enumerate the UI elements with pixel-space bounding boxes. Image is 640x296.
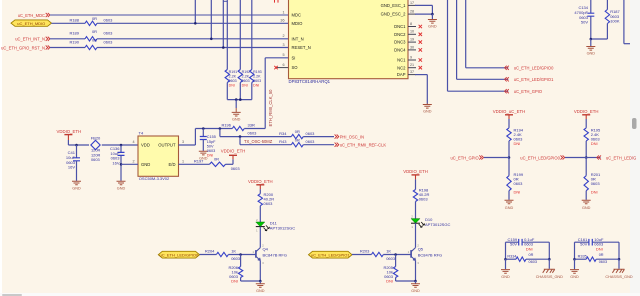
svg-text:uC_ETH_MDIO: uC_ETH_MDIO [17, 21, 45, 26]
svg-text:DNI: DNI [526, 246, 533, 251]
svg-text:0603: 0603 [386, 256, 396, 261]
svg-text:0603: 0603 [104, 31, 114, 36]
svg-text:MDC: MDC [292, 13, 302, 18]
svg-text:R197: R197 [194, 158, 204, 163]
svg-text:GND: GND [428, 25, 437, 29]
svg-text:16V: 16V [112, 160, 119, 165]
svg-text:1K: 1K [386, 249, 391, 254]
svg-text:0R: 0R [529, 253, 534, 257]
svg-text:OSC50M-3.3V02: OSC50M-3.3V02 [139, 176, 170, 181]
svg-text:GND: GND [232, 118, 241, 122]
svg-text:0603: 0603 [242, 79, 250, 83]
svg-text:0603: 0603 [229, 79, 237, 83]
svg-text:DNI: DNI [514, 141, 521, 146]
svg-text:DNI: DNI [386, 278, 393, 283]
svg-text:uC_ETH_LED/GPIO1: uC_ETH_LED/GPIO1 [514, 77, 554, 82]
svg-text:uC_ETH_GPIO: uC_ETH_GPIO [450, 155, 478, 160]
svg-text:16V: 16V [68, 165, 75, 170]
svg-text:3: 3 [282, 43, 284, 47]
svg-text:21: 21 [410, 63, 414, 67]
svg-text:PHI_OSC_IN: PHI_OSC_IN [340, 134, 364, 139]
svg-text:DNI: DNI [231, 278, 238, 283]
svg-text:VDDIO_ETH: VDDIO_ETH [403, 169, 428, 174]
svg-text:CHASSIS_GND: CHASSIS_GND [536, 275, 563, 279]
svg-text:ETH_RMII_CLK_50: ETH_RMII_CLK_50 [268, 89, 273, 127]
svg-text:DNC3: DNC3 [394, 40, 406, 45]
svg-text:DNC4: DNC4 [394, 48, 406, 53]
svg-text:RESET_N: RESET_N [292, 45, 311, 50]
svg-text:50V: 50V [207, 144, 214, 148]
svg-text:uC_ETH_INT_N: uC_ETH_INT_N [15, 37, 45, 42]
svg-text:10: 10 [410, 30, 414, 34]
svg-text:8: 8 [410, 22, 412, 26]
svg-text:R196: R196 [221, 123, 231, 128]
svg-text:GND_ESC_2: GND_ESC_2 [381, 12, 407, 17]
svg-text:0603: 0603 [529, 260, 537, 264]
svg-text:0R: 0R [92, 16, 97, 21]
svg-text:SI: SI [292, 55, 296, 60]
svg-text:C155: C155 [207, 135, 216, 139]
svg-text:SO: SO [292, 65, 299, 70]
svg-text:CHASSIS_GND: CHASSIS_GND [605, 275, 632, 279]
svg-text:2: 2 [282, 34, 284, 38]
svg-text:R192: R192 [242, 70, 251, 74]
svg-text:GND: GND [505, 206, 514, 210]
svg-text:DNI: DNI [229, 84, 235, 88]
svg-text:VDDIO_ETH: VDDIO_ETH [574, 109, 599, 114]
svg-text:9: 9 [410, 55, 412, 59]
svg-text:R193: R193 [253, 70, 262, 74]
svg-text:50V: 50V [580, 242, 587, 247]
svg-text:NC2: NC2 [397, 65, 406, 70]
svg-text:R203: R203 [360, 248, 370, 253]
svg-text:DAP: DAP [397, 72, 406, 77]
svg-text:0603: 0603 [599, 260, 607, 264]
svg-text:0603: 0603 [248, 130, 258, 135]
svg-text:FB20: FB20 [91, 136, 101, 141]
svg-text:R43: R43 [279, 139, 287, 144]
svg-text:1K: 1K [231, 249, 236, 254]
svg-text:uC_ETH_GPIO_RST_N: uC_ETH_GPIO_RST_N [1, 45, 45, 50]
svg-text:R188: R188 [69, 18, 79, 23]
svg-text:uC_ETH_LED/GPIO0: uC_ETH_LED/GPIO0 [160, 252, 199, 257]
svg-text:50V: 50V [581, 20, 588, 25]
svg-text:17: 17 [410, 1, 414, 5]
svg-text:GND: GND [582, 206, 591, 210]
svg-text:37: 37 [410, 70, 414, 74]
svg-text:DNC1: DNC1 [394, 24, 406, 29]
svg-text:0R: 0R [599, 253, 604, 257]
svg-text:BC847B RFG: BC847B RFG [418, 253, 442, 258]
svg-text:0603: 0603 [306, 131, 316, 136]
svg-text:36: 36 [280, 19, 284, 23]
svg-text:OUTPUT: OUTPUT [158, 143, 176, 148]
svg-text:R334: R334 [507, 255, 516, 259]
svg-text:100K: 100K [610, 19, 620, 24]
svg-text:0603: 0603 [514, 181, 524, 186]
svg-text:0603: 0603 [104, 39, 114, 44]
svg-text:uC_ETH_LED/GPIO1: uC_ETH_LED/GPIO1 [311, 252, 350, 257]
svg-text:GND: GND [570, 275, 579, 279]
svg-text:uC_ETH_LED/GPIO0: uC_ETH_LED/GPIO0 [520, 155, 560, 160]
svg-text:28: 28 [410, 10, 414, 14]
svg-text:GND: GND [587, 52, 596, 56]
svg-text:APT3012SGC: APT3012SGC [270, 225, 295, 230]
svg-text:GND: GND [501, 275, 510, 279]
svg-text:MDIO: MDIO [292, 21, 304, 26]
svg-text:50V: 50V [510, 242, 517, 247]
svg-text:DNI: DNI [591, 189, 598, 194]
svg-text:19: 19 [410, 38, 414, 42]
svg-text:0R: 0R [295, 137, 300, 142]
svg-text:GND: GND [423, 110, 432, 114]
svg-text:APT3012SGC: APT3012SGC [425, 222, 450, 227]
svg-text:DNI: DNI [596, 246, 603, 251]
svg-text:NC1: NC1 [397, 58, 406, 63]
svg-text:2.2K: 2.2K [253, 75, 261, 79]
svg-text:30: 30 [410, 45, 414, 49]
svg-text:DNI: DNI [514, 189, 521, 194]
svg-text:5: 5 [282, 53, 284, 57]
svg-text:GND: GND [411, 289, 420, 293]
svg-text:R204: R204 [205, 248, 215, 253]
svg-text:BC847B RFG: BC847B RFG [263, 253, 287, 258]
svg-text:0603: 0603 [264, 201, 274, 206]
svg-text:15pF: 15pF [207, 140, 216, 144]
svg-text:0R: 0R [92, 38, 97, 43]
svg-text:1: 1 [182, 160, 184, 164]
svg-text:2.2K: 2.2K [229, 75, 237, 79]
svg-text:0603: 0603 [231, 166, 241, 171]
svg-text:0603: 0603 [104, 18, 114, 23]
svg-text:33R: 33R [248, 123, 255, 128]
svg-text:R190: R190 [69, 39, 79, 44]
svg-text:R335: R335 [578, 255, 587, 259]
svg-text:VDD: VDD [141, 143, 150, 148]
svg-text:0R: 0R [214, 157, 219, 162]
svg-text:VDDIO_uC_ETH: VDDIO_uC_ETH [493, 109, 525, 114]
svg-text:3: 3 [182, 140, 184, 144]
svg-text:GND: GND [117, 186, 126, 190]
svg-text:0603: 0603 [419, 197, 429, 202]
svg-text:INT_N: INT_N [292, 36, 304, 41]
svg-text:0603: 0603 [253, 79, 261, 83]
svg-text:1: 1 [282, 10, 284, 14]
svg-text:uC_ETH_LED/G: uC_ETH_LED/G [606, 155, 636, 160]
svg-text:GND_ESC_1: GND_ESC_1 [381, 3, 407, 8]
svg-text:0603: 0603 [591, 181, 601, 186]
svg-text:DP83TC814RHARQ1: DP83TC814RHARQ1 [289, 79, 331, 84]
svg-text:TX_OSC-50MZ: TX_OSC-50MZ [244, 139, 273, 144]
svg-text:GND: GND [72, 186, 81, 190]
svg-text:0R: 0R [92, 29, 97, 34]
svg-text:E/D: E/D [169, 162, 176, 167]
svg-text:2: 2 [132, 160, 134, 164]
svg-text:R34: R34 [279, 131, 287, 136]
svg-text:T4: T4 [139, 130, 144, 135]
svg-text:0603: 0603 [306, 139, 316, 144]
svg-text:0603: 0603 [91, 157, 100, 162]
svg-text:uC_ETH_MDC: uC_ETH_MDC [18, 13, 45, 18]
svg-text:0603: 0603 [207, 149, 215, 153]
svg-text:DNI: DNI [591, 141, 598, 146]
svg-text:DNI: DNI [253, 84, 259, 88]
svg-text:R189: R189 [69, 31, 79, 36]
svg-text:0R: 0R [295, 129, 300, 134]
svg-text:2.2K: 2.2K [242, 75, 250, 79]
svg-text:uC_ETH_RMII_REF-CLK: uC_ETH_RMII_REF-CLK [340, 143, 387, 148]
svg-text:DNI: DNI [242, 84, 248, 88]
svg-text:0603: 0603 [231, 256, 241, 261]
svg-text:VDDIO_ETH: VDDIO_ETH [57, 129, 82, 134]
svg-text:6: 6 [282, 63, 284, 67]
svg-text:4: 4 [132, 140, 134, 144]
svg-text:VDDIO_ETH: VDDIO_ETH [248, 179, 273, 184]
svg-text:uC_ETH_LED/GPIO0: uC_ETH_LED/GPIO0 [514, 66, 554, 71]
svg-text:uC_ETH_GPIO: uC_ETH_GPIO [514, 89, 542, 94]
svg-text:DNI: DNI [207, 154, 214, 158]
svg-text:R191: R191 [229, 70, 238, 74]
svg-text:GND: GND [256, 289, 265, 293]
svg-text:VDDIO_ETH: VDDIO_ETH [221, 149, 246, 154]
svg-text:DNC2: DNC2 [394, 32, 406, 37]
svg-text:GND: GND [141, 162, 150, 167]
